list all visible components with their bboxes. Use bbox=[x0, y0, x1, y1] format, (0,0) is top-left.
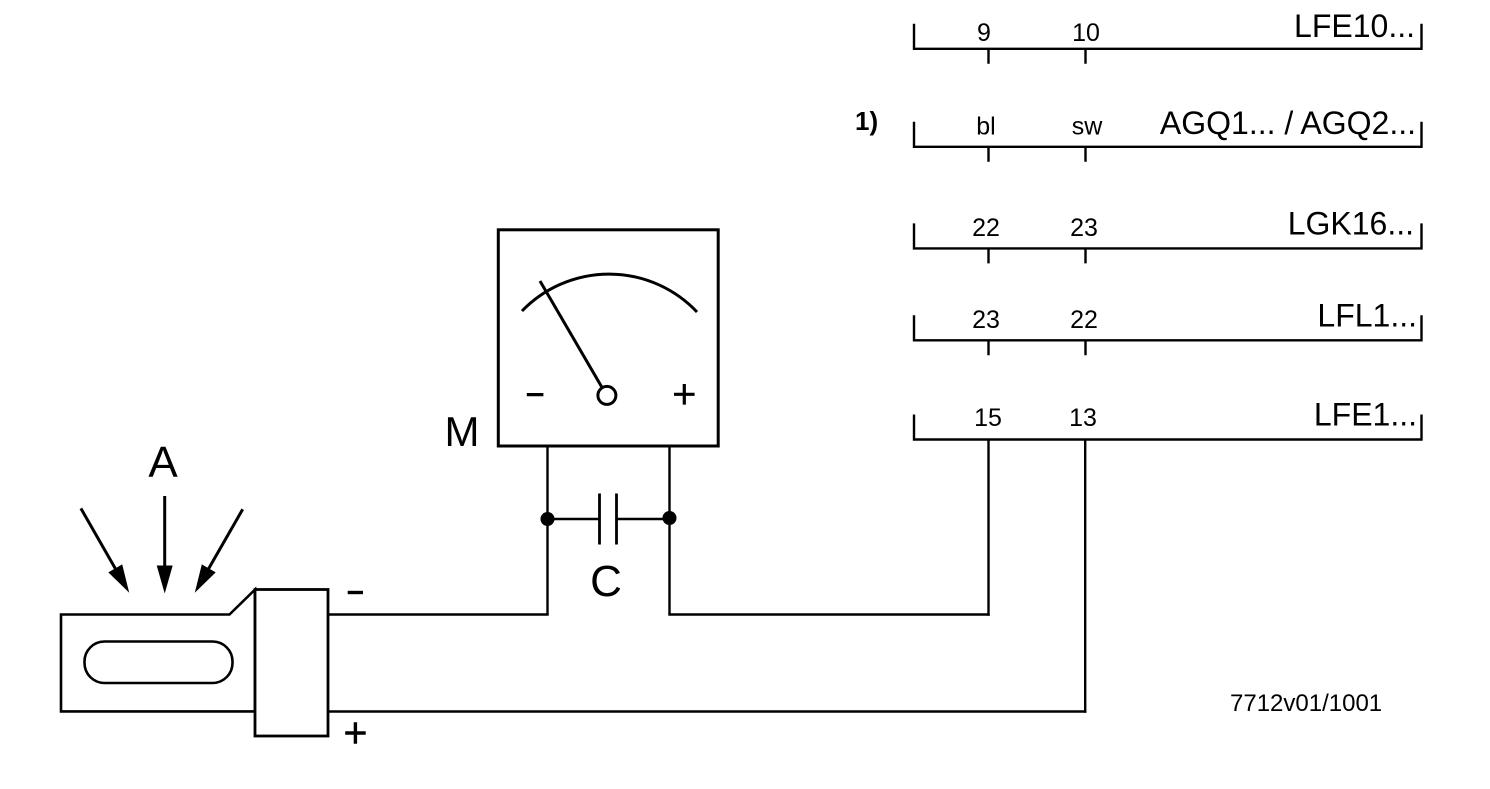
meter minus sign bbox=[527, 393, 544, 396]
meter plus sign bbox=[674, 384, 695, 405]
light arrow left bbox=[81, 508, 121, 578]
svg-text:sw: sw bbox=[1072, 113, 1104, 141]
wire plus rail bottom bbox=[328, 710, 1086, 712]
svg-text:13: 13 bbox=[1069, 404, 1097, 432]
light arrow middle bbox=[163, 496, 166, 580]
wire meter right terminal bbox=[668, 446, 670, 615]
junction node right bbox=[663, 511, 677, 525]
svg-text:LFL1...: LFL1... bbox=[1317, 298, 1417, 334]
connector bracket LGK16... bbox=[913, 223, 1423, 263]
light arrow right bbox=[203, 509, 243, 578]
svg-text:9: 9 bbox=[977, 19, 991, 47]
svg-text:AGQ1... / AGQ2...: AGQ1... / AGQ2... bbox=[1160, 105, 1416, 141]
photocell window bbox=[85, 642, 233, 684]
connector bracket LFE1... bbox=[913, 415, 1423, 440]
connector bracket LFE10... bbox=[913, 24, 1423, 64]
wire pin15 to node B bbox=[987, 440, 989, 616]
minus terminal sign bbox=[348, 591, 363, 594]
svg-text:A: A bbox=[148, 438, 178, 487]
plus terminal sign bbox=[345, 722, 366, 744]
svg-text:15: 15 bbox=[974, 404, 1002, 432]
svg-text:23: 23 bbox=[1070, 214, 1098, 242]
capacitor C1 bbox=[548, 494, 670, 545]
meter pivot bbox=[598, 386, 616, 404]
svg-text:bl: bl bbox=[976, 113, 995, 141]
wire pin13 down bbox=[1084, 440, 1086, 713]
svg-text:LFE1...: LFE1... bbox=[1314, 397, 1417, 433]
svg-text:1): 1) bbox=[855, 106, 878, 136]
junction node left bbox=[541, 512, 555, 526]
meter needle bbox=[540, 281, 607, 396]
svg-text:22: 22 bbox=[972, 214, 1000, 242]
svg-text:22: 22 bbox=[1070, 306, 1098, 334]
meter U1 box bbox=[498, 230, 718, 446]
connector bracket LFL1... bbox=[913, 315, 1423, 355]
svg-text:23: 23 bbox=[972, 306, 1000, 334]
svg-text:LGK16...: LGK16... bbox=[1288, 206, 1414, 242]
svg-text:7712v01/1001: 7712v01/1001 bbox=[1230, 690, 1382, 717]
svg-text:LFE10...: LFE10... bbox=[1294, 8, 1415, 44]
wire minus rail bbox=[328, 613, 549, 615]
wire node B horizontal bbox=[668, 613, 989, 615]
detector socket bbox=[255, 590, 328, 737]
wire meter left terminal bbox=[546, 446, 548, 615]
meter scale arc bbox=[522, 274, 697, 312]
svg-text:M: M bbox=[445, 408, 480, 455]
photocell detector body bbox=[61, 590, 255, 712]
svg-text:C: C bbox=[590, 557, 622, 606]
svg-text:10: 10 bbox=[1072, 19, 1100, 47]
connector bracket AGQ1... / AGQ2... bbox=[913, 122, 1423, 162]
